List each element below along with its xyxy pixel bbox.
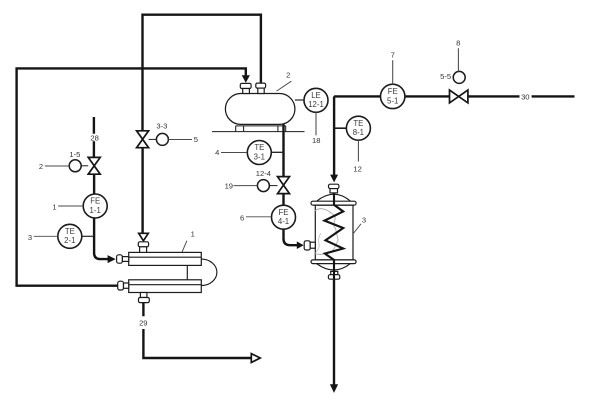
- svg-text:3: 3: [362, 215, 366, 224]
- connector LE 12-1 to vessel 2: [295, 99, 304, 101]
- svg-text:28: 28: [90, 133, 98, 142]
- tail line TE 8-1 to label 12: [353, 140, 361, 173]
- svg-text:12: 12: [353, 164, 361, 173]
- connector TE 2-1 to feed line: [82, 235, 94, 237]
- vessel 3 top rim flange: [311, 201, 356, 205]
- wire: overhead line corner down into vessel 3 top nozzle: [333, 96, 335, 175]
- wire: main horizontal line through FE 5-1 and valve 5-5 to line 30: [334, 95, 574, 97]
- instrument TE 2-1: [58, 224, 82, 248]
- svg-text:4: 4: [215, 148, 219, 157]
- connector TE 8-1 to overhead line: [334, 127, 346, 129]
- vessel 3 body: [315, 205, 353, 260]
- svg-text:3-1: 3-1: [254, 152, 265, 161]
- svg-text:TE: TE: [254, 143, 264, 152]
- label 5-5: [440, 72, 451, 81]
- svg-text:2: 2: [39, 162, 43, 171]
- svg-text:TE: TE: [353, 119, 363, 128]
- svg-text:8-1: 8-1: [353, 128, 364, 137]
- label 1-5: [69, 150, 80, 159]
- vessel 2 saddle line and legs: [236, 126, 286, 131]
- svg-text:30: 30: [521, 92, 529, 101]
- open arrow at end of line 29: [251, 354, 260, 363]
- svg-text:4-1: 4-1: [278, 217, 289, 226]
- svg-text:5-5: 5-5: [440, 72, 451, 81]
- exchanger top-left inlet flange: [117, 255, 129, 263]
- heat exchanger E-1 bottom pipe: [129, 280, 202, 293]
- instrument TE 3-1: [247, 141, 271, 165]
- label 1 for exchanger with leader: [182, 230, 195, 253]
- exchanger bottom-left inlet flange: [118, 281, 129, 290]
- label 6 with line to FE 4-1: [240, 213, 271, 222]
- actuator circle for valve 3-3: [149, 133, 169, 145]
- actuator circle for valve 5-5: [453, 71, 465, 83]
- vessel 2 right top nozzle: [256, 83, 266, 93]
- instrument FE 5-1: [381, 84, 405, 108]
- svg-text:7: 7: [391, 50, 395, 59]
- label 3 for vessel 3 with leader: [354, 215, 366, 233]
- vessel 3 bottom dome: [317, 264, 351, 270]
- svg-text:2-1: 2-1: [64, 236, 75, 245]
- vessel 2 left top nozzle: [240, 83, 251, 93]
- svg-text:8: 8: [456, 38, 460, 47]
- wire: vapor line from vessel 2 right nozzle up, across top, down to valve 3-3: [143, 15, 261, 131]
- wire: FE 1-1 down, curve right into exchanger top pipe: [94, 218, 109, 259]
- svg-text:FE: FE: [388, 87, 398, 96]
- exchanger bottom nozzle flange: [139, 293, 150, 303]
- solid arrow into vessel 3 side nozzle: [297, 241, 304, 249]
- label 29 in line gap: [139, 319, 147, 328]
- connector TE 3-1 to outlet line: [271, 151, 283, 153]
- svg-text:18: 18: [312, 136, 320, 145]
- vessel 3 interior sketch lines: [315, 209, 338, 255]
- actuator circle for valve 1-5: [69, 160, 88, 172]
- label 4 with line to TE 3-1: [215, 148, 247, 157]
- svg-text:TE: TE: [65, 227, 75, 236]
- svg-text:6: 6: [240, 213, 244, 222]
- svg-text:29: 29: [139, 319, 147, 328]
- svg-text:12-1: 12-1: [308, 100, 324, 109]
- wire: line 29 from exchanger bottom nozzle down and right (gap for label): [143, 303, 251, 358]
- label 8 with tail line to actuator: [456, 38, 460, 71]
- wire: feed line 28 above valve 1-5 (gap for label): [93, 117, 95, 157]
- label 19 with line to actuator: [225, 181, 258, 190]
- ground line under vessel 2: [212, 131, 305, 133]
- vessel 3 top nozzle: [329, 184, 339, 193]
- svg-text:1-5: 1-5: [69, 150, 80, 159]
- label 3-3: [156, 122, 167, 131]
- instrument FE 4-1: [272, 205, 296, 229]
- svg-text:3-3: 3-3: [156, 122, 167, 131]
- svg-text:1-1: 1-1: [90, 206, 101, 215]
- wire: vessel 2 bottom outlet down to valve 12-4: [282, 124, 284, 176]
- label 2 for vessel with leader: [277, 70, 292, 91]
- svg-text:FE: FE: [90, 197, 100, 206]
- wire: valve 1-5 to FE 1-1: [93, 174, 95, 194]
- svg-text:12-4: 12-4: [256, 169, 271, 178]
- label 12-4: [256, 169, 271, 178]
- valve 5-5: [450, 90, 468, 103]
- valve 12-4: [278, 177, 290, 194]
- solid arrow into vessel 2 left nozzle: [242, 75, 250, 83]
- vessel 3 bottom rim flange: [311, 260, 356, 264]
- vessel 3 top dome: [316, 194, 351, 201]
- label 1 with line to FE 1-1: [52, 202, 83, 211]
- svg-text:1: 1: [191, 230, 195, 239]
- solid arrow into exchanger top pipe: [108, 255, 116, 263]
- svg-text:19: 19: [225, 181, 233, 190]
- label 5 with line from actuator: [168, 135, 198, 144]
- solid arrow at bottom of vessel 3 outlet: [330, 384, 338, 393]
- vessel 3 bottom nozzle: [328, 271, 339, 279]
- valve 3-3: [137, 131, 149, 148]
- wire: valve 12-4 to FE 4-1: [282, 194, 284, 205]
- valve 1-5: [88, 157, 100, 174]
- label 3 with line to TE 2-1: [28, 233, 58, 242]
- svg-text:5: 5: [194, 135, 198, 144]
- label 28: [90, 133, 98, 142]
- vessel 2 horizontal drum body: [225, 94, 295, 125]
- svg-text:3: 3: [28, 233, 32, 242]
- coil inside vessel 3: [325, 193, 344, 279]
- svg-text:5-1: 5-1: [387, 96, 398, 105]
- solid arrow into vessel 3 top nozzle: [330, 175, 338, 183]
- wire: FE 4-1 down, curve right into vessel 3 side nozzle: [284, 229, 298, 245]
- open arrow into exchanger top nozzle: [139, 233, 149, 241]
- exchanger top nozzle flange: [138, 242, 148, 253]
- vessel 3 side inlet nozzle: [304, 241, 315, 250]
- instrument TE 8-1: [346, 116, 370, 140]
- label 2 with line to actuator: [39, 162, 70, 171]
- tail line LE 12-1 to label 18: [312, 112, 320, 145]
- svg-text:2: 2: [286, 70, 290, 79]
- svg-text:1: 1: [52, 202, 56, 211]
- actuator circle for valve 12-4: [257, 180, 277, 192]
- instrument LE 12-1: [304, 88, 328, 112]
- label 7 with tail line to FE 5-1: [391, 50, 395, 84]
- label 30 in line gap: [521, 92, 529, 101]
- instrument FE 1-1: [83, 194, 107, 218]
- heat exchanger U-bend: [187, 259, 217, 285]
- wire: valve 3-3 outlet down to exchanger top nozzle: [141, 148, 143, 234]
- wire: vessel 3 bottom outlet long line down: [333, 279, 335, 384]
- svg-text:LE: LE: [311, 91, 321, 100]
- wire: exchanger bottom pipe out, left, up, across, down into vessel 2 left nozzle: [17, 68, 246, 285]
- svg-text:FE: FE: [279, 208, 289, 217]
- heat exchanger E-1 top pipe: [129, 252, 202, 265]
